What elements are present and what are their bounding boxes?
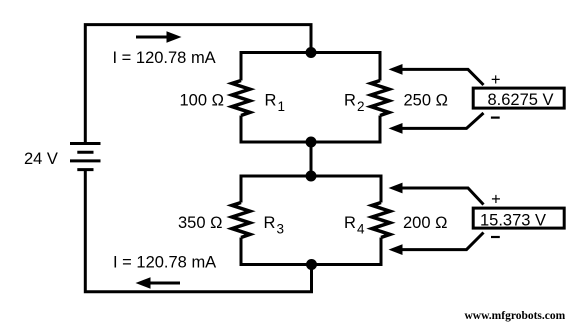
svg-text:15.373 V: 15.373 V — [480, 211, 546, 229]
watermark: www.mfgrobots.com — [465, 310, 566, 322]
label: R1 — [265, 91, 286, 114]
current arrow bottom (left) — [136, 277, 181, 288]
svg-text:350 Ω: 350 Ω — [178, 214, 222, 232]
svg-text:250 Ω: 250 Ω — [404, 91, 448, 109]
svg-text:I = 120.78 mA: I = 120.78 mA — [113, 49, 216, 67]
current arrow top (right) — [136, 31, 182, 42]
svg-text:1: 1 — [278, 99, 286, 114]
wire: box2 right edge stubs — [380, 175, 383, 267]
wire: box2 bottom edge — [241, 263, 381, 266]
voltmeter V2 lead arrow top — [389, 183, 484, 205]
label: 24 V — [24, 150, 58, 168]
wire: box1 bottom edge — [241, 141, 380, 144]
wire: box2 top edge — [241, 175, 381, 178]
wire: box1 left edge stubs — [240, 51, 243, 144]
svg-text:R: R — [344, 214, 356, 232]
node: box2 bottom dot — [306, 259, 317, 270]
wire: left top loop from battery up and across to top node — [85, 25, 311, 145]
voltmeter V2 lead arrow bottom — [389, 233, 484, 256]
voltmeter V2 box 15.373 V — [473, 208, 564, 229]
svg-text:3: 3 — [277, 222, 285, 237]
resistor R2 zigzag — [371, 81, 389, 116]
wire: box2 left edge stubs — [240, 175, 243, 267]
wire: connector between box1 and box2 — [310, 142, 313, 176]
svg-text:R: R — [344, 91, 356, 109]
svg-text:R: R — [265, 91, 277, 109]
resistor R4 zigzag — [372, 203, 390, 238]
svg-text:R: R — [264, 214, 276, 232]
voltmeter V1 lead arrow top — [389, 64, 484, 85]
svg-text:8.6275 V: 8.6275 V — [488, 91, 554, 109]
resistor R3 zigzag — [232, 203, 250, 238]
label: I = 120.78 mA (top) — [113, 49, 216, 67]
node: box2 top dot — [306, 171, 317, 182]
label: + (V1) — [491, 71, 501, 89]
svg-text:+: + — [491, 191, 501, 209]
label: - (V1) — [491, 116, 500, 118]
voltmeter V1 box 8.6275 V — [473, 88, 564, 109]
label: I = 120.78 mA (bottom) — [113, 254, 216, 272]
svg-text:200 Ω: 200 Ω — [403, 214, 447, 232]
node: top junction dot — [306, 47, 317, 58]
label: R2 — [344, 91, 365, 114]
wire: left bottom loop from battery down and across to bottom node — [85, 169, 311, 292]
label: 250 Ω — [404, 91, 448, 109]
svg-text:2: 2 — [357, 99, 365, 114]
label: R3 — [264, 214, 285, 237]
label: - (V2) — [491, 236, 500, 238]
label: + (V2) — [491, 191, 501, 209]
svg-text:I = 120.78 mA: I = 120.78 mA — [113, 254, 216, 272]
label: R4 — [344, 214, 365, 237]
resistor R1 zigzag — [232, 81, 250, 116]
label: 100 Ω — [180, 91, 224, 109]
svg-text:4: 4 — [357, 222, 365, 237]
node: box1 bottom dot — [306, 137, 317, 148]
svg-text:www.mfgrobots.com: www.mfgrobots.com — [465, 310, 566, 322]
svg-text:24 V: 24 V — [24, 150, 58, 168]
svg-text:100 Ω: 100 Ω — [180, 91, 224, 109]
battery 24 V — [70, 144, 101, 170]
label: 200 Ω — [403, 214, 447, 232]
wire: box1 top edge — [241, 51, 380, 54]
label: 350 Ω — [178, 214, 222, 232]
wire: box1 right edge stubs — [379, 51, 382, 144]
svg-text:+: + — [491, 71, 501, 89]
voltmeter V1 lead arrow bottom — [389, 113, 484, 134]
